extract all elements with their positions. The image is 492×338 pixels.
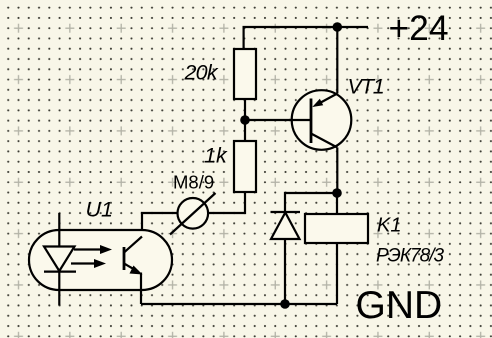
wire: relay K1 bottom to GND rail bbox=[336, 243, 338, 304]
phototransistor base bar bbox=[123, 247, 126, 270]
resistor 1k bbox=[234, 141, 256, 192]
svg-text:VT1: VT1 bbox=[348, 75, 384, 99]
svg-text:1k: 1k bbox=[204, 144, 228, 168]
svg-text:РЭК78/3: РЭК78/3 bbox=[376, 246, 444, 267]
phototransistor collector bbox=[124, 237, 142, 253]
LED anode/cathode lead bbox=[58, 213, 60, 306]
wire: 1k bottom to M8/9 bbox=[209, 192, 246, 213]
diode VD1 bbox=[271, 212, 301, 239]
node: junction dot on +24 rail bbox=[333, 22, 343, 32]
node A: junction dot collector/relay/diode bbox=[332, 188, 342, 198]
wire: relay K1 coil vertical bbox=[336, 193, 338, 214]
light arrow 1 bbox=[74, 248, 103, 250]
svg-text:+24: +24 bbox=[389, 8, 449, 48]
wire: node A to diode VD1 top bbox=[285, 193, 337, 212]
LED cathode bar bbox=[44, 271, 76, 273]
wire: +24 rail bbox=[244, 27, 368, 49]
wire: M8/9 to optocoupler collector bbox=[142, 213, 177, 237]
wire: emitter of VT1 to +24 rail bbox=[336, 27, 338, 94]
phototransistor emitter bbox=[124, 264, 138, 272]
svg-text:K1: K1 bbox=[377, 215, 401, 237]
wire: diode VD1 bottom to GND rail bbox=[284, 239, 286, 304]
meter M8/9 bbox=[170, 193, 216, 235]
svg-text:GND: GND bbox=[356, 284, 443, 327]
node: junction dot between resistors bbox=[240, 115, 250, 125]
wire: collector of VT1 to node A bbox=[336, 148, 338, 194]
resistor 20k bbox=[234, 49, 256, 99]
wire: 20k bottom to 1k top bbox=[244, 99, 246, 141]
svg-text:U1: U1 bbox=[86, 198, 113, 222]
transistor VT1 bbox=[289, 90, 351, 150]
LED triangle bbox=[44, 247, 75, 272]
node: junction dot diode on GND rail bbox=[280, 299, 290, 309]
wire: bottom GND rail bbox=[141, 303, 337, 305]
light arrow 2 bbox=[71, 262, 97, 264]
relay K1 coil bbox=[305, 214, 368, 243]
svg-text:20k: 20k bbox=[184, 61, 219, 85]
svg-text:M8/9: M8/9 bbox=[173, 172, 214, 193]
optocoupler U1 bbox=[29, 213, 172, 306]
wire: base of VT1 bbox=[245, 119, 311, 121]
